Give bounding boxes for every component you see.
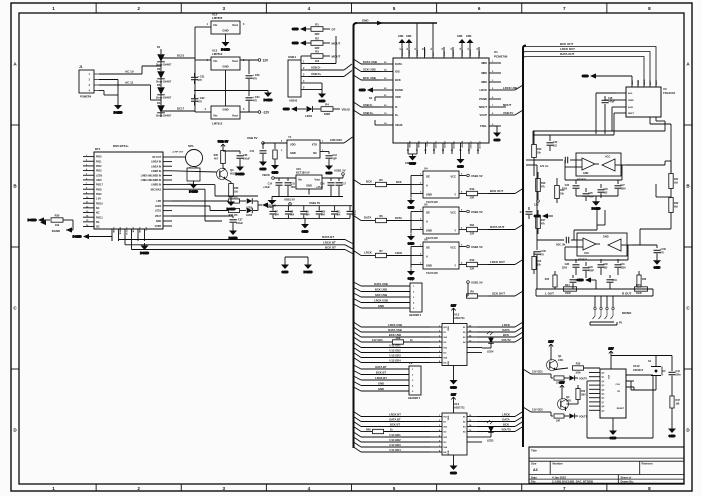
svg-text:10R: 10R xyxy=(556,421,561,423)
svg-text:LED0: LED0 xyxy=(155,206,162,208)
capacitor C15 100n xyxy=(285,178,297,197)
svg-text:C27: C27 xyxy=(621,185,626,187)
svg-text:OE: OE xyxy=(426,211,430,215)
svg-text:U6: U6 xyxy=(424,238,428,242)
resistor R49 row xyxy=(354,337,431,344)
op-amp U7 NE5532 xyxy=(570,153,626,182)
svg-text:C29: C29 xyxy=(589,267,594,269)
svg-text:U10: U10 xyxy=(296,167,301,171)
svg-text:R21: R21 xyxy=(674,178,679,181)
svg-text:BCK OUT: BCK OUT xyxy=(560,42,573,46)
svg-text:330R: 330R xyxy=(324,112,330,116)
svg-text:CE: CE xyxy=(617,391,621,393)
svg-text:470P: 470P xyxy=(589,269,595,272)
svg-text:DATA OUT: DATA OUT xyxy=(560,52,575,56)
svg-text:12V clo: 12V clo xyxy=(540,165,549,168)
svg-text:DGND: DGND xyxy=(112,227,114,233)
svg-text:NC: NC xyxy=(313,151,317,155)
svg-text:DATA USB: DATA USB xyxy=(374,282,387,286)
svg-text:R11: R11 xyxy=(470,223,475,227)
IC U14 ADG711 xyxy=(430,401,477,467)
svg-text:DATA: DATA xyxy=(643,79,646,85)
svg-text:AC 10: AC 10 xyxy=(125,70,134,74)
crystal alt element xyxy=(263,143,277,163)
svg-text:Vout: Vout xyxy=(232,114,238,118)
ground U4 xyxy=(407,198,415,210)
capacitor C24 stage A xyxy=(583,188,595,201)
IC U1 PCM2706 xyxy=(354,50,508,143)
svg-text:D3: D3 xyxy=(157,83,161,87)
svg-text:GND: GND xyxy=(426,264,432,268)
svg-text:CLK: CLK xyxy=(616,384,621,386)
svg-text:DT: DT xyxy=(332,28,336,32)
svg-text:470: 470 xyxy=(198,100,203,104)
wire U1 VDD VBUS xyxy=(369,97,381,125)
svg-text:C41: C41 xyxy=(676,370,681,373)
svg-text:AGND: AGND xyxy=(461,141,464,148)
svg-text:LINEA IN: LINEA IN xyxy=(151,161,161,164)
svg-text:U4: U4 xyxy=(424,167,428,171)
svg-text:USB1 5V: USB1 5V xyxy=(471,210,483,214)
svg-text:+10uF: +10uF xyxy=(263,186,271,189)
svg-text:PIO17: PIO17 xyxy=(96,184,103,187)
svg-text:LRCK USB: LRCK USB xyxy=(388,323,402,327)
svg-text:R9: R9 xyxy=(470,290,474,294)
ground under C12 xyxy=(325,163,333,175)
svg-text:LRCK: LRCK xyxy=(395,251,402,255)
svg-text:ADG711: ADG711 xyxy=(454,316,465,320)
svg-text:LRCK: LRCK xyxy=(502,413,510,417)
svg-text:LRCK USB: LRCK USB xyxy=(374,299,388,303)
svg-text:LM7812: LM7812 xyxy=(212,52,223,56)
svg-text:10P: 10P xyxy=(333,158,338,161)
svg-text:74LVC125: 74LVC125 xyxy=(426,201,438,204)
svg-text:U5: U5 xyxy=(424,203,428,207)
svg-text:A: A xyxy=(426,220,428,224)
svg-text:VBUSI: VBUSI xyxy=(470,49,472,56)
svg-text:RESET: RESET xyxy=(617,408,625,410)
ground arrow between stages xyxy=(534,213,553,218)
resistor R48 row xyxy=(354,427,431,434)
capacitor C36 100uF xyxy=(223,151,250,164)
svg-text:DGND: DGND xyxy=(236,172,246,176)
svg-text:XTI: XTI xyxy=(433,52,435,56)
svg-text:C30: C30 xyxy=(604,264,609,266)
resistor R15 column xyxy=(532,252,542,274)
op-amp U8 NE5532 xyxy=(571,233,632,262)
terminal 12V stage A xyxy=(534,200,539,207)
capacitor C27 stage A xyxy=(615,180,627,196)
resistor R22 right column xyxy=(669,197,679,222)
capacitor C22 xyxy=(547,135,559,151)
svg-text:MIC BIAS: MIC BIAS xyxy=(151,188,162,191)
svg-text:2: 2 xyxy=(137,6,140,11)
svg-text:P1: P1 xyxy=(410,278,414,282)
svg-text:GND: GND xyxy=(408,206,416,210)
svg-text:1 8V: 1 8V xyxy=(96,198,101,201)
svg-text:Vout: Vout xyxy=(232,23,238,27)
svg-text:GND: GND xyxy=(362,19,368,23)
wire stage A inputs xyxy=(526,157,570,176)
regulator U15 LM7912 xyxy=(205,91,245,126)
terminal USB 5V U5 xyxy=(467,210,483,214)
svg-text:C28: C28 xyxy=(565,263,570,266)
ground under C37 xyxy=(229,228,239,240)
svg-text:U14 GD1: U14 GD1 xyxy=(389,433,401,437)
wire AC input xyxy=(99,70,151,102)
svg-text:PIO0: PIO0 xyxy=(96,156,102,159)
svg-text:DGND: DGND xyxy=(189,190,199,194)
svg-text:PGND: PGND xyxy=(479,97,487,101)
svg-text:R OUT: R OUT xyxy=(622,292,632,296)
svg-text:Vin: Vin xyxy=(213,114,218,118)
svg-text:BCK: BCK xyxy=(503,423,509,427)
svg-text:C11: C11 xyxy=(336,211,341,213)
svg-text:XTO: XTO xyxy=(312,143,317,147)
svg-text:R12: R12 xyxy=(470,187,475,191)
svg-text:Date: Date xyxy=(531,475,537,479)
svg-text:GND: GND xyxy=(583,172,589,175)
svg-text:USB D-: USB D- xyxy=(311,66,321,70)
svg-text:PIO1: PIO1 xyxy=(96,160,102,163)
svg-text:470: 470 xyxy=(198,78,203,82)
svg-text:R13: R13 xyxy=(537,148,542,151)
svg-text:DATA USB: DATA USB xyxy=(388,328,401,332)
ground stage A caps xyxy=(576,196,618,211)
svg-text:R4: R4 xyxy=(325,103,329,107)
pushbutton S1 xyxy=(611,356,672,391)
svg-text:CD4017: CD4017 xyxy=(633,368,644,372)
svg-text:-12V: -12V xyxy=(263,111,271,115)
svg-text:USB 5V: USB 5V xyxy=(503,111,513,115)
svg-text:LINEA IN/LINEB IN: LINEA IN/LINEB IN xyxy=(141,175,162,178)
ground arrow BT bottom left xyxy=(73,234,112,241)
svg-text:VOUTL: VOUTL xyxy=(443,141,445,149)
svg-text:R5: R5 xyxy=(379,178,383,182)
svg-text:LRCK USB: LRCK USB xyxy=(503,86,517,90)
bus taps 12V GD right xyxy=(523,369,543,374)
resistor R46 xyxy=(567,385,587,404)
capacitor C16 xyxy=(316,178,334,197)
svg-text:R15: R15 xyxy=(537,261,542,263)
ground under USB1 xyxy=(318,90,326,104)
svg-text:LRCK OUT: LRCK OUT xyxy=(560,47,575,51)
ground BT bottom xyxy=(140,243,150,255)
grounds under C13 xyxy=(259,159,267,171)
svg-text:R6: R6 xyxy=(379,214,383,218)
svg-text:GND: GND xyxy=(222,108,228,112)
svg-text:RF OUT: RF OUT xyxy=(152,157,161,159)
connector P2 header xyxy=(354,361,422,400)
svg-text:DGND: DGND xyxy=(304,270,314,274)
svg-text:R39: R39 xyxy=(576,363,581,366)
svg-text:1: 1 xyxy=(52,486,55,491)
svg-text:U13 GD4: U13 GD4 xyxy=(389,359,401,363)
svg-text:R46: R46 xyxy=(581,390,586,393)
capacitor C18 DAC xyxy=(596,93,616,134)
svg-text:R26: R26 xyxy=(642,279,647,281)
svg-text:12V: 12V xyxy=(263,59,270,63)
svg-text:12V: 12V xyxy=(451,304,456,308)
svg-text:LED1: LED1 xyxy=(305,114,313,118)
svg-text:DATA BT: DATA BT xyxy=(375,365,387,369)
svg-text:USB1 5V: USB1 5V xyxy=(471,281,483,285)
resistor R23 vert xyxy=(545,271,557,289)
ground arrow LED5 LED6 xyxy=(258,201,276,211)
power 12V Q1 xyxy=(548,340,553,350)
speaker SP1 xyxy=(172,144,203,186)
svg-text:PIO10: PIO10 xyxy=(96,202,103,205)
wires U13 right rows xyxy=(467,322,523,353)
capacitor C14 +10uF xyxy=(263,178,282,197)
svg-text:R16: R16 xyxy=(541,182,546,185)
svg-text:XTO: XTO xyxy=(444,51,446,56)
resistor R25 R xyxy=(635,284,648,295)
svg-text:MONO: MONO xyxy=(622,311,632,315)
svg-text:+C36: +C36 xyxy=(660,248,666,251)
resistor R9 SCK OUT xyxy=(467,283,524,298)
svg-text:6: 6 xyxy=(478,6,481,11)
ground under R36 xyxy=(227,199,237,211)
svg-text:SSPND: SSPND xyxy=(402,48,404,56)
wire U112 outer loop xyxy=(587,375,653,438)
svg-text:4: 4 xyxy=(308,486,311,491)
wire DAC outputs down xyxy=(612,107,671,172)
svg-text:DGND: DGND xyxy=(114,111,124,115)
svg-text:VBUS: VBUS xyxy=(395,123,403,127)
svg-text:22R: 22R xyxy=(470,268,475,271)
wire USB1 to bus xyxy=(308,36,352,90)
resistor R11 DATA OUT xyxy=(467,223,524,236)
svg-text:DC10: DC10 xyxy=(177,54,185,58)
svg-text:D1: D1 xyxy=(157,45,161,49)
svg-text:Number: Number xyxy=(553,462,563,466)
svg-text:DGND: DGND xyxy=(52,229,60,233)
wire 12V GD2 row xyxy=(540,412,569,423)
power 12V U112 xyxy=(608,347,613,357)
terminal -12V xyxy=(258,111,270,115)
svg-text:GND: GND xyxy=(378,382,384,386)
svg-text:+5 RF OUT: +5 RF OUT xyxy=(172,152,184,154)
svg-text:DATA: DATA xyxy=(132,227,135,233)
svg-text:Vout: Vout xyxy=(232,59,238,63)
svg-text:USB1 5V: USB1 5V xyxy=(284,197,295,201)
regulator U13 LM7812 xyxy=(207,49,245,75)
buffer U5 74LVC125 xyxy=(40,42,681,475)
svg-text:R3: R3 xyxy=(315,50,319,54)
svg-text:Q3: Q3 xyxy=(230,168,234,172)
svg-text:MOUT: MOUT xyxy=(503,103,512,107)
svg-text:BCK: BCK xyxy=(503,333,509,337)
svg-text:DGND: DGND xyxy=(140,251,150,255)
ground arrow U10 rail xyxy=(267,197,277,210)
U1 right pins xyxy=(479,61,523,128)
capacitor C29 stage B xyxy=(583,262,595,278)
bus line right vertical xyxy=(523,46,526,448)
svg-text:C19: C19 xyxy=(520,212,525,214)
svg-text:2200: 2200 xyxy=(621,267,627,269)
svg-text:FSEL: FSEL xyxy=(480,124,487,128)
svg-text:U13 GD2: U13 GD2 xyxy=(389,349,401,353)
svg-text:LPB: LPB xyxy=(156,201,161,203)
svg-text:1: 1 xyxy=(52,6,55,11)
svg-text:D+: D+ xyxy=(395,113,399,117)
svg-text:GND: GND xyxy=(283,107,291,111)
svg-text:HEADER 5: HEADER 5 xyxy=(409,314,422,317)
svg-text:C13: C13 xyxy=(250,150,255,153)
svg-text:VCCR1: VCCR1 xyxy=(434,141,436,149)
svg-text:D4: D4 xyxy=(157,101,161,105)
svg-text:R23: R23 xyxy=(545,279,550,281)
svg-text:LED1: LED1 xyxy=(155,211,162,213)
svg-text:GND: GND xyxy=(306,184,312,188)
svg-text:VCCX: VCCX xyxy=(462,49,464,56)
terminal USB 5V U4 xyxy=(467,174,483,178)
svg-text:+ C32: + C32 xyxy=(198,96,206,100)
U1 bottom pins xyxy=(407,141,480,154)
svg-text:GND: GND xyxy=(302,230,310,234)
svg-text:P2: P2 xyxy=(409,361,413,365)
svg-text:1k0: 1k0 xyxy=(234,191,239,194)
svg-text:DGND: DGND xyxy=(73,235,83,239)
svg-text:BCK OUT: BCK OUT xyxy=(490,189,503,193)
regulator U12 LM7805 xyxy=(207,13,245,39)
svg-text:GND: GND xyxy=(292,27,300,31)
svg-text:100R: 100R xyxy=(565,293,571,295)
svg-text:LRCK BT: LRCK BT xyxy=(375,376,387,380)
connector USB1 xyxy=(288,55,308,103)
svg-text:VCCL: VCCL xyxy=(426,141,428,148)
wire U13 GND to mid rail xyxy=(225,74,227,91)
svg-text:+47uF: +47uF xyxy=(608,101,615,104)
svg-text:12V GD2: 12V GD2 xyxy=(532,408,543,412)
svg-text:LRCK: LRCK xyxy=(480,88,488,92)
svg-text:C23: C23 xyxy=(565,184,570,187)
ground arrow lower left xyxy=(52,225,73,233)
svg-text:S1: S1 xyxy=(648,359,652,363)
svg-text:2200: 2200 xyxy=(562,268,568,270)
svg-text:GND: GND xyxy=(282,270,290,274)
svg-text:W3BDA: W3BDA xyxy=(119,227,122,235)
svg-text:BCK USB: BCK USB xyxy=(363,76,376,80)
svg-text:TEST: TEST xyxy=(479,50,481,56)
svg-text:GND: GND xyxy=(466,35,472,38)
svg-text:C:\USB DAC\USB_DAC_BT.DDB: C:\USB DAC\USB_DAC_BT.DDB xyxy=(552,480,593,484)
wire stage B inputs xyxy=(537,210,605,256)
IC U112 CD4017 xyxy=(589,356,644,428)
svg-text:1M0: 1M0 xyxy=(581,394,586,396)
svg-text:74LVC125: 74LVC125 xyxy=(426,272,438,275)
svg-text:Revision: Revision xyxy=(642,462,654,466)
diode D3 1N4007 xyxy=(156,83,172,100)
svg-text:100k: 100k xyxy=(575,372,581,375)
svg-text:DATA BT: DATA BT xyxy=(322,235,334,239)
svg-text:5: 5 xyxy=(393,486,396,491)
svg-text:GND: GND xyxy=(603,236,609,239)
svg-text:USB-B: USB-B xyxy=(289,99,297,103)
svg-text:GND: GND xyxy=(448,450,450,455)
svg-text:ADC 10k: ADC 10k xyxy=(556,244,566,247)
svg-text:VDD: VDD xyxy=(607,375,609,380)
svg-text:IOS: IOS xyxy=(395,70,400,74)
ground U14 xyxy=(450,464,458,476)
svg-text:VCCR2: VCCR2 xyxy=(469,141,471,149)
connector J1 xyxy=(79,65,99,99)
svg-text:GND: GND xyxy=(326,171,334,175)
svg-text:VCCC1: VCCC1 xyxy=(425,48,427,56)
resistor R39 row xyxy=(556,363,601,375)
svg-text:GND: GND xyxy=(450,471,458,475)
ground DGND under J1 xyxy=(114,101,124,115)
svg-text:12V: 12V xyxy=(534,203,539,207)
svg-text:3: 3 xyxy=(223,486,226,491)
ground arrow rail xyxy=(577,277,596,289)
svg-text:LRCK BT: LRCK BT xyxy=(389,413,401,417)
buffer U4 74LVC125 xyxy=(40,42,681,475)
resistor R24 L xyxy=(564,284,577,295)
wire DATA row xyxy=(354,214,412,223)
svg-text:+ C31: + C31 xyxy=(198,75,206,79)
svg-text:A3: A3 xyxy=(533,468,538,472)
svg-text:4-Jan-2023: 4-Jan-2023 xyxy=(552,475,566,479)
wire right column joins xyxy=(626,161,671,245)
svg-text:DC17: DC17 xyxy=(177,107,185,111)
svg-text:DATA: DATA xyxy=(502,418,509,422)
svg-text:VCC: VCC xyxy=(584,252,589,255)
terminal USB 5V U6 xyxy=(467,245,483,249)
svg-text:Diode 1N4007: Diode 1N4007 xyxy=(156,115,172,118)
svg-text:DGND: DGND xyxy=(264,98,274,102)
svg-text:POWER4: POWER4 xyxy=(80,95,92,99)
svg-text:22R: 22R xyxy=(470,233,475,236)
svg-text:GND: GND xyxy=(450,386,458,390)
wire Q2 collector xyxy=(565,409,567,412)
svg-text:BCT180 5V: BCT180 5V xyxy=(296,171,310,175)
terminal 12V xyxy=(258,59,269,63)
wires U14 left rows xyxy=(354,412,431,453)
wire LRCK row xyxy=(354,249,412,258)
decoupling bank C7-C12 xyxy=(270,201,357,222)
resistor R16 xyxy=(536,172,546,199)
power 12V Q2 xyxy=(559,381,564,391)
ground U112 xyxy=(609,428,617,440)
svg-text:NC: NC xyxy=(96,207,100,210)
power USB 5V at Q3 xyxy=(218,140,229,150)
svg-text:DATA: DATA xyxy=(395,216,402,220)
svg-text:LINEA IN/LINEB IN: LINEA IN/LINEB IN xyxy=(141,179,162,182)
svg-text:D-: D- xyxy=(395,105,398,109)
svg-text:NC: NC xyxy=(96,221,100,224)
svg-text:LRCK BT: LRCK BT xyxy=(323,241,336,245)
svg-text:Vin: Vin xyxy=(213,23,218,27)
svg-text:USB1 5V: USB1 5V xyxy=(334,169,346,173)
svg-text:LRCK OUT: LRCK OUT xyxy=(490,260,505,264)
IC U13 ADG711 xyxy=(430,312,477,378)
svg-text:GND: GND xyxy=(222,29,228,33)
bus GND label top xyxy=(362,19,383,26)
svg-text:12V: 12V xyxy=(451,393,456,397)
wire 12V GD1 row xyxy=(540,374,569,385)
frame row letters xyxy=(13,62,690,433)
svg-text:GND GND: GND GND xyxy=(405,162,417,165)
svg-text:CLKO: CLKO xyxy=(417,50,419,56)
svg-text:GND: GND xyxy=(272,171,280,175)
svg-text:MOUT: MOUT xyxy=(479,105,487,109)
svg-text:A: A xyxy=(426,184,428,188)
terminal VBUS to U10 xyxy=(262,173,274,179)
svg-text:VCC: VCC xyxy=(450,246,456,250)
svg-text:LRCK: LRCK xyxy=(502,323,510,327)
